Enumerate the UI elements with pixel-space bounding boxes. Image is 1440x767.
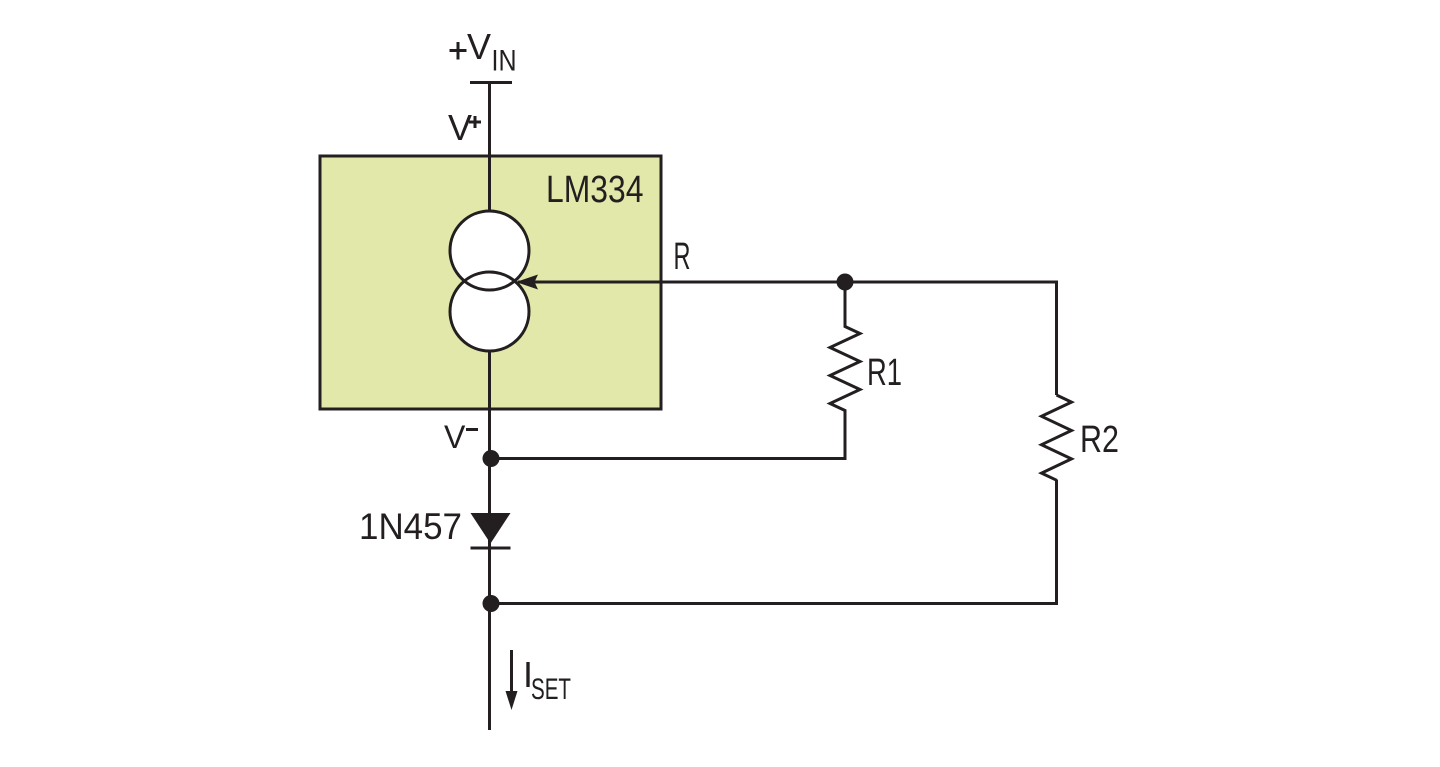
svg-text:SET: SET	[531, 673, 571, 706]
svg-text:R2: R2	[1080, 419, 1119, 461]
svg-text:LM334: LM334	[546, 169, 644, 211]
svg-text:V: V	[444, 419, 466, 455]
svg-text:R: R	[674, 236, 691, 278]
svg-text:R1: R1	[867, 352, 902, 394]
svg-text:V: V	[448, 107, 472, 148]
svg-text:V: V	[467, 26, 491, 67]
svg-text:IN: IN	[492, 45, 517, 78]
svg-text:1N457: 1N457	[359, 506, 462, 547]
